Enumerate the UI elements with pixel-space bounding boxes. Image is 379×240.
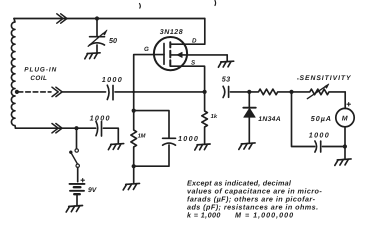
svg-text:G: G xyxy=(144,46,149,53)
ground C3 xyxy=(108,144,123,150)
ground D1 xyxy=(239,143,255,150)
svg-text:50: 50 xyxy=(109,36,117,45)
svg-text:1000: 1000 xyxy=(102,75,123,84)
connector chevron middle xyxy=(52,87,58,96)
svg-text:3N128: 3N128 xyxy=(160,29,183,36)
svg-text:SENSITIVITY: SENSITIVITY xyxy=(300,75,353,82)
ground meter xyxy=(335,159,351,166)
connector chevron top xyxy=(57,14,63,23)
inductor L1 plug-in coil xyxy=(11,19,15,129)
cropped text marks top xyxy=(139,4,142,9)
capacitor C5 53 xyxy=(223,86,225,97)
source lead xyxy=(170,66,204,92)
resistor R1 1M xyxy=(131,111,137,167)
ground substrate xyxy=(218,55,233,67)
gate lead xyxy=(134,55,164,111)
svg-text:M = 1,000,000: M = 1,000,000 xyxy=(235,210,294,219)
svg-text:1000: 1000 xyxy=(309,130,330,139)
resistor R3 filter xyxy=(249,89,291,95)
label SENSITIVITY leading dot xyxy=(297,78,298,79)
wire C2 to source node xyxy=(115,91,205,93)
ground below C1 xyxy=(85,53,100,59)
meter M1 50uA xyxy=(344,92,346,109)
substrate lead with arrow xyxy=(170,54,227,56)
wire coil tap dashed lead xyxy=(18,91,51,93)
ground gate network xyxy=(123,183,139,190)
svg-text:k = 1,000: k = 1,000 xyxy=(187,210,221,219)
gate bar xyxy=(163,44,165,65)
diode D1 1N34A xyxy=(248,92,250,108)
capacitor C3 1000 supply bypass xyxy=(96,121,98,135)
connector chevron bottom xyxy=(52,124,58,133)
resistor R4 sensitivity pot xyxy=(292,89,346,95)
ground battery xyxy=(66,206,82,213)
svg-text:1M: 1M xyxy=(138,133,146,139)
svg-text:50µA: 50µA xyxy=(311,114,332,123)
svg-text:9V: 9V xyxy=(88,187,98,194)
svg-text:PLUG-IN: PLUG-IN xyxy=(24,67,57,74)
ground R2 xyxy=(195,144,210,150)
capacitor C1 50 variable xyxy=(96,19,98,37)
wire bottom rail xyxy=(16,127,96,129)
wire drain drop xyxy=(171,19,205,45)
svg-text:1k: 1k xyxy=(211,113,218,120)
channel segments xyxy=(169,42,171,47)
svg-text:M: M xyxy=(342,115,348,122)
svg-text:53: 53 xyxy=(222,74,231,83)
svg-text:1N34A: 1N34A xyxy=(258,116,281,123)
transistor Q1 3N128 xyxy=(154,37,187,70)
capacitor C6 1000 meter bypass xyxy=(292,92,315,147)
switch S1 xyxy=(76,128,78,149)
svg-text:1000: 1000 xyxy=(90,113,111,122)
resistor R2 1k source xyxy=(202,92,208,144)
capacitor C4 1000 gate bypass xyxy=(134,111,169,139)
svg-text:1000: 1000 xyxy=(178,134,199,143)
node junction dots xyxy=(95,16,99,20)
wire to ground xyxy=(133,166,135,183)
battery B1 9V xyxy=(70,183,85,185)
wire tap to C2 xyxy=(63,91,106,93)
wire top rail (coil top to drain) xyxy=(14,18,205,20)
svg-text:COIL: COIL xyxy=(30,75,47,82)
svg-text:D: D xyxy=(192,38,197,45)
capacitor C2 1000 coupling xyxy=(107,85,109,99)
